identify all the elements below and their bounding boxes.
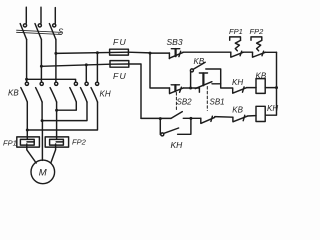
svg-text:SB2: SB2: [177, 97, 193, 106]
svg-text:KB: KB: [256, 72, 267, 81]
svg-text:FP1: FP1: [229, 27, 243, 36]
svg-text:FU: FU: [113, 71, 127, 81]
svg-text:S: S: [58, 28, 64, 37]
svg-text:FP2: FP2: [250, 27, 265, 36]
svg-text:KB: KB: [194, 57, 205, 66]
svg-text:KB: KB: [232, 106, 243, 115]
svg-text:KH: KH: [267, 104, 278, 113]
svg-text:FP1: FP1: [3, 139, 17, 148]
svg-text:FP2: FP2: [72, 138, 87, 147]
svg-text:KH: KH: [232, 78, 243, 87]
svg-text:KH: KH: [100, 90, 111, 99]
svg-text:KB: KB: [8, 89, 19, 98]
svg-text:FU: FU: [113, 37, 127, 47]
svg-text:SB1: SB1: [210, 97, 225, 106]
svg-text:KH: KH: [171, 140, 184, 150]
svg-text:M: M: [39, 168, 47, 179]
svg-text:SB3: SB3: [167, 37, 183, 47]
